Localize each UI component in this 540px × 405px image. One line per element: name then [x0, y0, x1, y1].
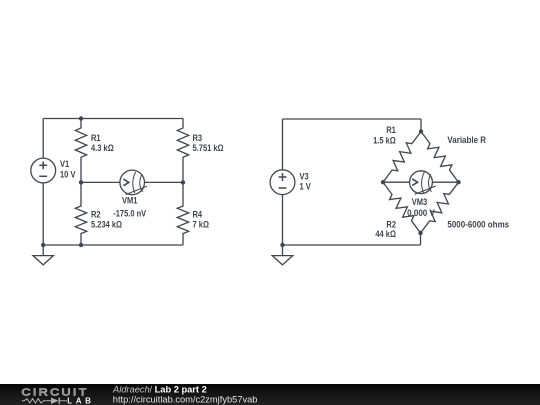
svg-text:-175.0 nV: -175.0 nV [113, 208, 146, 219]
svg-text:4.3 kΩ: 4.3 kΩ [91, 142, 114, 153]
svg-text:R3: R3 [193, 132, 203, 143]
svg-text:R1: R1 [91, 132, 101, 143]
svg-text:Aldraech: Aldraech [112, 385, 150, 395]
svg-text:1.5 kΩ: 1.5 kΩ [373, 134, 396, 145]
svg-text:0.000 V: 0.000 V [407, 207, 435, 218]
svg-text:Lab 2 part 2: Lab 2 part 2 [155, 385, 207, 395]
svg-text:R1: R1 [386, 124, 396, 135]
svg-text:5.751 kΩ: 5.751 kΩ [193, 142, 224, 153]
svg-text:5.234 kΩ: 5.234 kΩ [91, 219, 122, 230]
svg-text:VM1: VM1 [122, 195, 138, 206]
svg-text:LAB: LAB [67, 396, 94, 405]
svg-text:44 kΩ: 44 kΩ [375, 228, 396, 239]
svg-text:10 V: 10 V [60, 169, 76, 180]
svg-text:Variable R: Variable R [447, 134, 486, 145]
svg-text:5000-6000 ohms: 5000-6000 ohms [447, 219, 509, 230]
svg-text:VM3: VM3 [412, 196, 428, 207]
svg-text:1 V: 1 V [300, 181, 312, 192]
svg-text:/: / [150, 385, 153, 395]
svg-text:http://circuitlab.com/c2zmjfyb: http://circuitlab.com/c2zmjfyb57vab [113, 395, 258, 405]
svg-text:7 kΩ: 7 kΩ [193, 219, 210, 230]
